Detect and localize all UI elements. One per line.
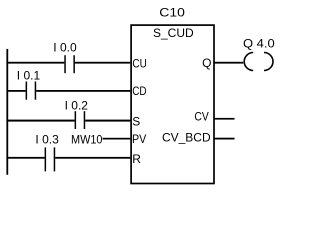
svg-text:S: S [132,115,140,129]
counter block C10 box [131,25,214,183]
wire CV_BCD output stub [214,138,234,140]
svg-text:CD: CD [132,84,147,98]
svg-text:Q: Q [202,56,211,70]
wire rung3 right segment [85,120,130,122]
wire rung5 right segment [55,157,130,159]
svg-text:R: R [132,152,141,166]
svg-text:CU: CU [132,57,146,71]
wire rung2 left segment [6,90,25,92]
contact I0.1 [26,82,37,100]
svg-text:I 0.1: I 0.1 [17,68,41,82]
wire rung2 right segment [36,90,130,92]
svg-text:C10: C10 [159,6,185,20]
left power rail [6,49,8,175]
svg-text:S_CUD: S_CUD [153,26,194,40]
wire MW10 to PV [103,138,131,140]
svg-text:CV_BCD: CV_BCD [162,130,211,144]
svg-text:I 0.2: I 0.2 [65,98,89,112]
svg-text:Q 4.0: Q 4.0 [243,36,275,50]
coil Q4.0 [244,53,273,71]
contact I0.2 [75,111,86,129]
contact I0.3 [45,147,56,171]
svg-text:PV: PV [132,132,146,146]
svg-text:CV: CV [194,109,208,123]
svg-text:I 0.0: I 0.0 [53,41,77,55]
svg-text:I 0.3: I 0.3 [35,132,59,146]
wire rung1 right segment [75,62,130,64]
wire Q output to coil [214,62,243,64]
wire rung1 left segment [6,62,64,64]
contact I0.0 [64,55,75,73]
wire CV output stub [214,118,234,120]
wire rung3 left segment [6,120,74,122]
svg-text:MW10: MW10 [71,132,103,146]
wire rung5 left segment [6,157,44,159]
